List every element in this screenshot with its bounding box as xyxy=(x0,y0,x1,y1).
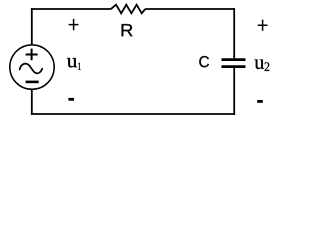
label u1 xyxy=(67,58,77,67)
label u2 xyxy=(255,60,264,70)
resistor R xyxy=(111,5,145,14)
capacitor C plates xyxy=(222,60,246,67)
label R xyxy=(122,24,133,36)
wire right vertical (capacitor to bottom wire) xyxy=(233,68,235,115)
wire bottom segment xyxy=(31,113,235,115)
wire right vertical (top wire to capacitor) xyxy=(233,8,235,58)
wire left vertical (bottom, source to bottom wire) xyxy=(31,89,33,115)
voltage source plus mark xyxy=(26,49,38,61)
node polarity + (top left) xyxy=(69,19,79,30)
wire left vertical (top, source to top wire) xyxy=(31,8,33,45)
wire top-right segment xyxy=(145,8,234,10)
node polarity - (bottom right) xyxy=(257,100,263,103)
label C xyxy=(199,56,209,67)
voltage source sine wave xyxy=(20,64,43,74)
node polarity + (top right) xyxy=(258,20,268,31)
wire top-left segment xyxy=(32,8,111,10)
voltage source minus mark xyxy=(26,81,39,84)
voltage source U1 circle xyxy=(10,45,54,89)
node polarity - (bottom left) xyxy=(68,98,74,101)
